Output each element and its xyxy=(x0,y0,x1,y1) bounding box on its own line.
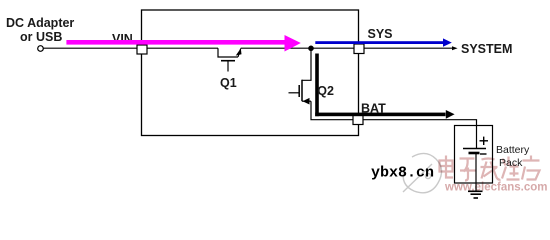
wire node A down to Q2 drain xyxy=(302,48,311,80)
battery plus sign xyxy=(480,140,489,142)
svg-text:Q2: Q2 xyxy=(317,84,334,98)
wire VIN pin to Q1 xyxy=(147,47,218,49)
pin square BAT xyxy=(353,115,363,125)
Q2 source arrow xyxy=(303,98,310,105)
svg-text:SYS: SYS xyxy=(368,27,393,41)
svg-text:ybx8.cn: ybx8.cn xyxy=(371,165,434,182)
pin square VIN xyxy=(137,45,147,54)
watermark logo swirl xyxy=(403,153,442,192)
IC box U1 xyxy=(142,10,359,136)
svg-text:Q1: Q1 xyxy=(220,76,237,90)
svg-text:BAT: BAT xyxy=(361,102,386,116)
BAT current path black thick wire xyxy=(315,54,319,117)
battery cell B1 xyxy=(476,126,478,149)
pin square SYS xyxy=(354,44,364,54)
svg-text:or USB: or USB xyxy=(20,30,62,44)
wire input to VIN pin xyxy=(43,47,137,49)
SYS current path blue arrow xyxy=(315,41,443,44)
svg-text:DC Adapter: DC Adapter xyxy=(6,16,74,30)
ground xyxy=(468,191,483,198)
watermark chinese characters xyxy=(440,156,540,181)
Q1 arrow xyxy=(236,48,242,55)
svg-text:SYSTEM: SYSTEM xyxy=(461,42,512,56)
SYSTEM arrowhead xyxy=(452,46,458,50)
VIN current path magenta arrow xyxy=(66,40,284,45)
input terminal circle xyxy=(38,46,44,52)
battery pack box xyxy=(455,126,493,184)
wire node A to SYS pin xyxy=(311,47,354,49)
battery minus sign xyxy=(480,153,487,155)
transistor Q1 xyxy=(218,48,241,71)
transistor Q2 xyxy=(289,80,312,102)
wire Q2 source to BAT pin xyxy=(311,101,353,120)
wire BAT pin to battery xyxy=(363,120,477,126)
wire battery to ground xyxy=(475,183,477,191)
svg-text:Battery: Battery xyxy=(496,144,530,156)
wire SYS pin to SYSTEM xyxy=(364,47,453,49)
svg-text:www.elecfans.com: www.elecfans.com xyxy=(444,182,547,194)
node A junction dot xyxy=(308,46,314,52)
wire Q1 to node A xyxy=(241,47,311,49)
